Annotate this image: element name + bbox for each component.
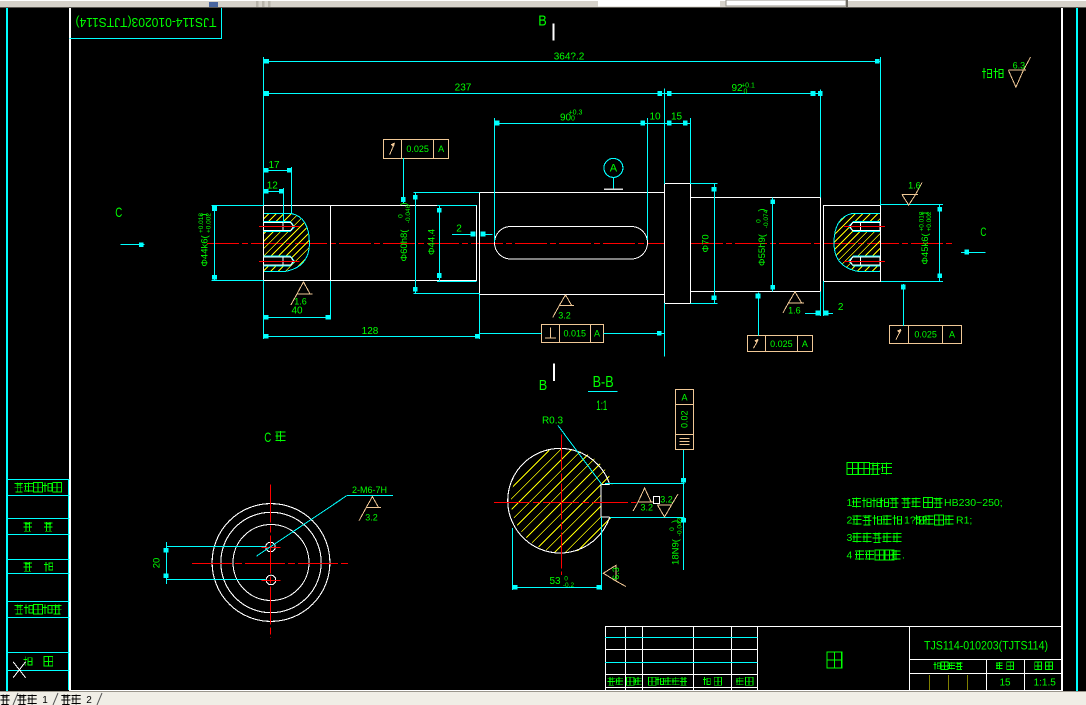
svg-text:2: 2 xyxy=(86,695,92,705)
title block top line xyxy=(605,626,1062,628)
svg-text:0.025: 0.025 xyxy=(770,339,793,349)
revision table verticals xyxy=(605,626,607,690)
svg-text:0.025: 0.025 xyxy=(914,330,937,340)
symmetry tolerance box vertical xyxy=(676,390,694,450)
label miao tu xyxy=(23,522,32,532)
svg-text:): ) xyxy=(199,213,210,216)
B-B crosshair xyxy=(494,502,637,504)
dim 364 line xyxy=(264,61,880,63)
dim 128 xyxy=(264,336,480,338)
roughness 3.2 C view xyxy=(359,497,381,521)
dim 53-0.2 xyxy=(513,587,601,589)
cyan outline around left top hole xyxy=(263,222,294,232)
svg-text:C: C xyxy=(115,204,122,220)
C view M6 holes xyxy=(266,542,276,552)
svg-text:3: 3 xyxy=(847,532,853,544)
outer cyan frame right xyxy=(1076,8,1078,691)
svg-text:18N9(: 18N9( xyxy=(671,538,682,565)
outer cyan frame left xyxy=(6,8,8,691)
svg-text:0.025: 0.025 xyxy=(406,144,429,154)
datum A symbol xyxy=(604,158,623,177)
crosshair cursor xyxy=(13,662,26,678)
dim 2 right groove xyxy=(805,313,820,315)
leader bottom-left runout xyxy=(758,293,760,336)
tolerance frame runout 0.025 A (top) xyxy=(384,140,449,159)
right M6 hole bottom xyxy=(850,257,880,265)
tolerance frame runout 0.025 A (bottom right) xyxy=(890,326,962,344)
svg-text:1.6: 1.6 xyxy=(908,181,921,191)
svg-text:A: A xyxy=(681,392,687,402)
ext vertical flange right xyxy=(690,118,692,184)
qiyu 6.3 general roughness xyxy=(982,68,992,79)
dim 12 xyxy=(264,191,283,193)
svg-text:128: 128 xyxy=(362,326,379,337)
label jieyongjian dengji xyxy=(15,482,24,492)
svg-text:C: C xyxy=(264,429,271,445)
svg-text:.: . xyxy=(902,550,905,562)
ext vertical flange left xyxy=(664,89,666,184)
svg-text:0: 0 xyxy=(398,214,405,218)
header tuyangbiaoji xyxy=(934,662,941,670)
svg-text:3.2: 3.2 xyxy=(365,512,378,522)
main shaft centerline xyxy=(207,243,955,245)
svg-text:Φ44k6(: Φ44k6( xyxy=(200,234,211,266)
right end section outline xyxy=(824,206,881,282)
svg-text:Φ60h8(: Φ60h8( xyxy=(399,229,410,262)
left attached column inner cyan border xyxy=(68,479,70,690)
leader 2-M6-7H xyxy=(257,496,347,556)
svg-text:-0.2: -0.2 xyxy=(563,582,575,589)
svg-text:1.6: 1.6 xyxy=(294,297,307,307)
ext vertical keyway slot left xyxy=(494,118,496,242)
keyway section outline xyxy=(480,193,665,295)
tab separators xyxy=(13,693,18,705)
dim 20 C view xyxy=(166,546,266,548)
svg-text:0: 0 xyxy=(744,89,748,96)
svg-text:3.2: 3.2 xyxy=(660,495,673,505)
top-left mirrored drawing number box xyxy=(70,38,222,40)
roughness 3.2 keyway side b with box xyxy=(654,497,660,504)
svg-text:6.3: 6.3 xyxy=(1013,61,1026,71)
shoulder at x330 xyxy=(330,206,332,281)
keyway slot xyxy=(495,227,648,260)
svg-text:0: 0 xyxy=(571,116,575,123)
model tab partial xyxy=(0,695,9,705)
svg-text:TJS114-010203(TJTS114): TJS114-010203(TJTS114) xyxy=(924,641,1048,653)
left attached column boxes xyxy=(6,479,69,481)
phi55 section xyxy=(691,198,821,292)
flange phi70 xyxy=(665,184,691,304)
svg-text:15: 15 xyxy=(671,112,683,123)
roughness 1.6 above 40 xyxy=(291,282,313,305)
svg-text:3.2: 3.2 xyxy=(641,502,654,512)
groove wall x476.7 xyxy=(476,206,478,281)
svg-text:1.6: 1.6 xyxy=(788,306,801,316)
svg-text:1:1.5: 1:1.5 xyxy=(1034,678,1057,689)
leader from top runout box xyxy=(403,158,405,203)
right end broken-out hatch xyxy=(767,212,939,273)
roughness 3.2 keyway side a xyxy=(633,488,654,511)
svg-text:0.015: 0.015 xyxy=(564,328,587,338)
svg-text:2: 2 xyxy=(456,224,462,235)
revision header labels xyxy=(608,677,615,685)
perp leader right xyxy=(604,333,665,335)
inner white frame bottom xyxy=(70,690,1062,692)
C view crosshair xyxy=(270,485,272,638)
svg-text:364?.2: 364?.2 xyxy=(554,52,585,63)
tab layout1 xyxy=(17,695,26,705)
dim phi44.4 bracket xyxy=(439,206,441,282)
svg-text:Φ70: Φ70 xyxy=(701,234,712,252)
svg-text:2: 2 xyxy=(838,302,844,313)
svg-text:): ) xyxy=(919,212,930,215)
roughness 6.3 on 53 dim (rotated) xyxy=(603,565,626,586)
svg-text:B: B xyxy=(539,377,548,394)
ext vertical right end top xyxy=(880,57,882,206)
svg-text:0.02: 0.02 xyxy=(680,410,690,428)
tolerance frame perp 0.015 A xyxy=(542,325,604,343)
B-B keyway slot profile xyxy=(601,484,610,517)
cyan outline around right top hole xyxy=(849,222,880,232)
svg-text:40: 40 xyxy=(291,306,303,317)
svg-text:A: A xyxy=(594,328,600,338)
bottom layout tab bar xyxy=(0,691,1086,705)
svg-text:-0.046: -0.046 xyxy=(405,204,412,223)
svg-text:15: 15 xyxy=(999,678,1011,689)
tolerance frame runout 0.025 A (bottom left) xyxy=(748,336,813,352)
svg-text:20: 20 xyxy=(152,558,163,569)
part name zhou xyxy=(909,626,911,690)
svg-text:1:1: 1:1 xyxy=(596,397,607,413)
ext vertical flange bottom-left xyxy=(664,303,666,357)
header bili xyxy=(1035,662,1042,670)
svg-text:TJS114-010203(TJTS114): TJS114-010203(TJTS114) xyxy=(76,15,217,29)
svg-text:0: 0 xyxy=(669,527,676,531)
ext vertical left end top xyxy=(263,57,265,206)
svg-text:1: 1 xyxy=(847,497,853,509)
svg-text:3.2: 3.2 xyxy=(558,310,571,320)
dim 237 / 92 line xyxy=(264,93,821,95)
svg-text:Φ45k6(: Φ45k6( xyxy=(920,232,931,264)
svg-text:53: 53 xyxy=(549,576,561,587)
svg-text:): ) xyxy=(670,520,681,523)
svg-text:A: A xyxy=(949,330,955,340)
revision table cyan rows xyxy=(605,637,758,639)
ext vertical keyway slot right xyxy=(647,118,649,240)
roughness 1.6 right end top xyxy=(902,183,922,206)
label qian zi xyxy=(23,657,32,667)
svg-text:): ) xyxy=(757,208,768,211)
dim 2 left groove xyxy=(452,234,471,236)
ext vertical phi55 right / groove xyxy=(820,90,822,198)
svg-text:B: B xyxy=(538,13,547,30)
svg-text:R0.3: R0.3 xyxy=(542,415,564,426)
label miao jiao xyxy=(23,562,32,572)
shaft left end section xyxy=(264,206,477,281)
svg-text:Φ44.4: Φ44.4 xyxy=(427,229,438,255)
svg-text:A: A xyxy=(610,163,618,175)
C view circles xyxy=(212,504,330,622)
svg-text:R1;: R1; xyxy=(956,515,972,527)
header zhongliang xyxy=(996,662,1003,670)
right M6 hole top xyxy=(850,223,880,231)
dim 17 xyxy=(264,170,292,172)
roughness 1.6 phi55 bottom (inverted) xyxy=(783,292,804,313)
svg-text:2-M6-7H: 2-M6-7H xyxy=(352,485,387,495)
svg-text:C: C xyxy=(980,227,986,239)
svg-text:17: 17 xyxy=(268,160,280,171)
left end broken-out hatch xyxy=(203,212,367,273)
revision table white rows xyxy=(605,649,758,651)
tech requirements title xyxy=(847,462,858,474)
inner white frame right xyxy=(1061,8,1063,691)
inner white frame left xyxy=(69,8,71,691)
svg-text:2: 2 xyxy=(847,515,853,527)
left M6 hole top xyxy=(263,223,293,231)
dim phi44k6 bracket xyxy=(214,206,216,281)
svg-text:10: 10 xyxy=(649,112,661,123)
tab layout2 xyxy=(61,695,70,705)
svg-text:A: A xyxy=(802,339,808,349)
svg-text:12: 12 xyxy=(267,181,279,192)
svg-text:0: 0 xyxy=(756,219,763,223)
dim 40 xyxy=(264,317,331,319)
dim phi70 bracket xyxy=(714,184,716,303)
olive ticks xyxy=(929,675,931,690)
svg-text:4: 4 xyxy=(847,550,853,562)
dim phi45k6 bracket xyxy=(939,205,941,282)
dim phi60h8 bracket xyxy=(415,192,417,293)
dim 90 / 10 / 15 line xyxy=(495,123,691,125)
cyan outline around right bottom hole xyxy=(849,256,880,266)
dim 18N9 xyxy=(605,483,684,485)
label jiuditu zonghao xyxy=(15,605,24,615)
svg-text:Φ55h9(: Φ55h9( xyxy=(757,233,768,266)
svg-text:A: A xyxy=(438,144,444,154)
dim phi55h9 bracket xyxy=(772,198,774,292)
svg-text:6.3: 6.3 xyxy=(611,567,621,580)
leader bottom-right runout xyxy=(903,284,905,326)
svg-text:237: 237 xyxy=(455,83,472,94)
svg-text:HB230~250;: HB230~250; xyxy=(944,497,1003,509)
left M6 hole bottom xyxy=(263,257,293,265)
cyan outline around left bottom hole xyxy=(263,256,294,266)
perp leader left xyxy=(480,333,542,335)
svg-text:B-B: B-B xyxy=(593,374,614,391)
roughness 3.2 keyway bottom xyxy=(553,295,575,318)
svg-text:1: 1 xyxy=(42,695,48,705)
